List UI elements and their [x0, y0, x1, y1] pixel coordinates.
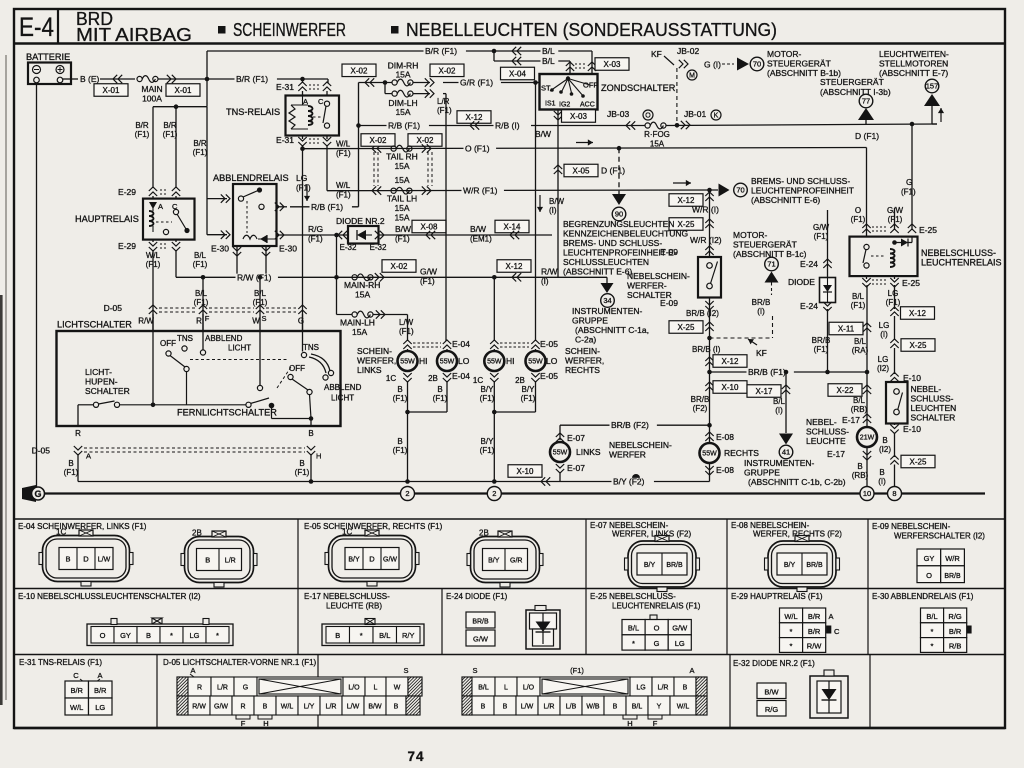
svg-text:(F1): (F1) [901, 188, 916, 197]
svg-text:E-09 NEBELSCHEIN-: E-09 NEBELSCHEIN- [872, 522, 951, 531]
svg-text:GY: GY [924, 554, 935, 563]
svg-text:X-02: X-02 [417, 136, 434, 145]
svg-text:L/W: L/W [347, 703, 360, 710]
svg-text:R/B (I): R/B (I) [495, 121, 520, 131]
svg-text:LEUCHTE (RB): LEUCHTE (RB) [326, 602, 382, 611]
svg-text:DIODE NR.2: DIODE NR.2 [336, 216, 385, 226]
svg-text:1C: 1C [342, 528, 352, 537]
svg-text:B/Y: B/Y [784, 562, 796, 569]
svg-text:B/Y: B/Y [481, 385, 495, 394]
svg-text:O: O [926, 571, 932, 580]
svg-text:(I2): (I2) [877, 364, 889, 373]
svg-text:LO: LO [458, 356, 470, 366]
svg-text:B/L: B/L [542, 56, 555, 66]
svg-text:G: G [298, 317, 304, 326]
svg-text:(F1): (F1) [480, 394, 495, 403]
svg-text:LEUCHTENPROFEINHEIT E-: LEUCHTENPROFEINHEIT E- [563, 248, 677, 258]
svg-text:E-08: E-08 [716, 465, 734, 475]
svg-text:X-08: X-08 [421, 223, 438, 232]
svg-text:B: B [857, 462, 862, 471]
svg-text:L/R: L/R [437, 97, 450, 106]
svg-text:E-32: E-32 [370, 243, 387, 252]
svg-text:WERFER: WERFER [609, 450, 646, 460]
svg-text:G/W: G/W [420, 267, 437, 277]
svg-text:8: 8 [892, 489, 896, 498]
svg-text:R/W: R/W [192, 703, 206, 710]
svg-text:ABBLEND: ABBLEND [324, 383, 362, 392]
svg-text:G: G [34, 489, 41, 499]
svg-text:15A: 15A [650, 140, 665, 149]
svg-text:E-10: E-10 [903, 424, 921, 434]
svg-text:LICHT-: LICHT- [85, 367, 112, 377]
svg-text:(RB): (RB) [851, 405, 868, 414]
svg-text:BR/B (I2): BR/B (I2) [686, 309, 719, 318]
svg-text:SCHEIN-: SCHEIN- [357, 346, 392, 356]
svg-text:F: F [241, 719, 246, 728]
svg-text:E-29: E-29 [118, 187, 136, 197]
svg-text:(F1): (F1) [814, 345, 829, 354]
svg-text:X-11: X-11 [838, 325, 855, 334]
svg-text:W/R (I2): W/R (I2) [690, 235, 722, 245]
svg-text:(I2): (I2) [879, 445, 891, 454]
svg-text:TNS: TNS [177, 334, 193, 343]
svg-text:FERNLICHTSCHALTER: FERNLICHTSCHALTER [177, 408, 277, 418]
svg-text:(F1): (F1) [393, 394, 408, 403]
svg-text:G: G [243, 684, 248, 691]
svg-text:B/R (F1): B/R (F1) [236, 74, 268, 84]
svg-text:(RB): (RB) [852, 471, 869, 480]
svg-text:E-24 DIODE (F1): E-24 DIODE (F1) [446, 592, 508, 601]
svg-text:B: B [299, 459, 304, 468]
svg-text:G/W: G/W [672, 624, 688, 633]
svg-text:LINKS: LINKS [576, 447, 601, 457]
svg-text:W/R: W/R [945, 554, 960, 563]
svg-text:77: 77 [862, 97, 870, 106]
svg-text:IS1: IS1 [545, 101, 556, 108]
svg-text:BR/B: BR/B [944, 573, 961, 580]
svg-text:LEUCHTENRELAIS (F1): LEUCHTENRELAIS (F1) [612, 602, 701, 611]
svg-text:LEUCHTE: LEUCHTE [806, 436, 846, 446]
svg-text:(F1): (F1) [886, 298, 901, 307]
svg-text:2B: 2B [192, 529, 202, 538]
svg-text:21W: 21W [860, 435, 875, 442]
svg-text:TNS: TNS [303, 343, 319, 352]
svg-text:SCHEINWERFER: SCHEINWERFER [233, 20, 346, 40]
svg-text:HAUPTRELAIS: HAUPTRELAIS [75, 214, 139, 224]
svg-text:D-05: D-05 [32, 446, 51, 456]
svg-text:W/L: W/L [146, 251, 161, 260]
svg-text:2B: 2B [479, 529, 489, 538]
svg-text:GY: GY [120, 631, 131, 640]
svg-text:NEBELSCHEIN-: NEBELSCHEIN- [627, 271, 690, 281]
svg-text:55W: 55W [528, 359, 543, 366]
svg-text:B/R: B/R [163, 121, 177, 130]
svg-text:BREMS- UND SCHLUSS-: BREMS- UND SCHLUSS- [751, 176, 850, 186]
svg-text:B/L: B/L [195, 289, 208, 298]
svg-text:90: 90 [615, 210, 623, 219]
svg-text:(F1): (F1) [194, 298, 209, 307]
svg-text:(F1): (F1) [480, 446, 495, 455]
svg-text:B/R: B/R [949, 627, 962, 636]
svg-text:C: C [318, 97, 324, 106]
svg-text:OFF: OFF [583, 81, 598, 90]
svg-text:IG2: IG2 [559, 102, 570, 109]
svg-text:(RA): (RA) [852, 346, 869, 355]
svg-text:R: R [196, 317, 202, 326]
svg-text:B/L: B/L [379, 631, 390, 640]
svg-text:R: R [75, 429, 81, 438]
svg-text:B: B [503, 703, 508, 710]
svg-text:X-25: X-25 [910, 458, 927, 467]
svg-text:S: S [403, 666, 408, 675]
svg-text:R·FOG: R·FOG [644, 130, 670, 139]
svg-text:C: C [834, 627, 840, 636]
svg-text:WERFER,: WERFER, [357, 356, 396, 366]
svg-text:(ABSCHNITT C-1b, C-2b): (ABSCHNITT C-1b, C-2b) [748, 477, 846, 487]
svg-text:LG: LG [189, 631, 199, 640]
svg-text:MOTOR-: MOTOR- [733, 230, 767, 240]
svg-text:X-12: X-12 [466, 113, 483, 122]
svg-text:E-32 DIODE NR.2 (F1): E-32 DIODE NR.2 (F1) [733, 659, 815, 668]
svg-text:D-05 LICHTSCHALTER-VORNE NR.1: D-05 LICHTSCHALTER-VORNE NR.1 (F1) [163, 658, 317, 667]
svg-text:B: B [205, 555, 210, 564]
svg-text:E-17 NEBELSCHLUSS-: E-17 NEBELSCHLUSS- [304, 592, 390, 601]
svg-text:K: K [714, 113, 719, 120]
svg-text:*: * [931, 642, 934, 651]
svg-text:MOTOR-: MOTOR- [767, 49, 801, 59]
svg-text:(F1): (F1) [64, 468, 79, 477]
svg-text:2B: 2B [428, 374, 438, 383]
svg-text:NEBELSCHEIN-: NEBELSCHEIN- [609, 440, 672, 450]
svg-text:X-01: X-01 [175, 86, 192, 95]
svg-text:BREMS- UND SCHLUSS-: BREMS- UND SCHLUSS- [563, 238, 662, 248]
svg-text:R/W: R/W [541, 267, 558, 277]
svg-text:W/L: W/L [677, 703, 690, 710]
svg-text:ZONDSCHALTER: ZONDSCHALTER [601, 83, 676, 93]
svg-text:LEUCHTENPROFEINHEIT: LEUCHTENPROFEINHEIT [751, 186, 854, 196]
svg-text:X-02: X-02 [370, 136, 387, 145]
svg-text:HUPEN-: HUPEN- [85, 377, 118, 387]
svg-text:F: F [653, 719, 658, 728]
svg-text:E-04: E-04 [452, 339, 470, 349]
svg-text:70: 70 [753, 60, 761, 69]
svg-text:W/R (I): W/R (I) [692, 205, 719, 215]
svg-text:STEUERGERÄT: STEUERGERÄT [733, 240, 797, 250]
svg-text:BR/B: BR/B [812, 336, 831, 345]
svg-text:G (I): G (I) [704, 60, 721, 70]
svg-text:X-04: X-04 [509, 70, 526, 79]
svg-text:L/R: L/R [658, 684, 669, 691]
svg-text:(F1): (F1) [395, 235, 410, 244]
svg-text:(F1): (F1) [308, 235, 323, 244]
svg-text:A: A [829, 612, 834, 621]
svg-text:B/L: B/L [926, 612, 937, 621]
svg-text:B/Y: B/Y [522, 385, 536, 394]
svg-text:B: B [879, 468, 884, 477]
svg-text:MAIN-RH: MAIN-RH [344, 280, 380, 290]
svg-text:ST: ST [541, 84, 551, 93]
svg-text:BR/B: BR/B [806, 562, 823, 569]
svg-text:*: * [790, 642, 793, 651]
svg-text:BR/B (F2): BR/B (F2) [611, 420, 649, 430]
svg-text:D: D [83, 554, 89, 563]
svg-text:X-02: X-02 [391, 262, 408, 271]
svg-text:(ABSCHNITT E-6): (ABSCHNITT E-6) [751, 195, 820, 205]
svg-text:LEUCHTEN: LEUCHTEN [911, 403, 957, 413]
svg-text:157: 157 [926, 82, 939, 91]
svg-text:GRUPPE: GRUPPE [572, 316, 608, 326]
svg-text:W/L: W/L [70, 703, 83, 712]
svg-text:G/W: G/W [887, 206, 903, 215]
svg-text:R/B (F1): R/B (F1) [388, 121, 420, 131]
svg-text:(F1): (F1) [163, 130, 178, 139]
svg-text:(F1): (F1) [851, 301, 866, 310]
svg-text:B/L: B/L [853, 396, 866, 405]
svg-text:(ABSCHNITT C-1a,: (ABSCHNITT C-1a, [575, 325, 649, 335]
svg-text:ACC: ACC [580, 102, 595, 109]
svg-text:15A: 15A [394, 203, 409, 213]
svg-text:X-05: X-05 [573, 167, 590, 176]
svg-text:(F1): (F1) [393, 446, 408, 455]
svg-text:B/R: B/R [94, 686, 107, 695]
svg-text:B/W: B/W [395, 224, 411, 234]
svg-text:55W: 55W [487, 359, 502, 366]
svg-text:R/G: R/G [765, 705, 779, 714]
svg-text:1C: 1C [386, 374, 396, 383]
svg-text:E-25: E-25 [902, 278, 920, 288]
svg-text:(F1): (F1) [336, 191, 351, 200]
svg-text:R/W: R/W [807, 642, 823, 651]
svg-text:55W: 55W [440, 359, 455, 366]
svg-text:B: B [397, 437, 402, 446]
svg-text:71: 71 [767, 260, 775, 269]
svg-text:B/R (F1): B/R (F1) [425, 46, 457, 56]
svg-text:A: A [689, 666, 694, 675]
svg-text:ABBLEND: ABBLEND [205, 334, 243, 343]
svg-text:LG: LG [675, 639, 685, 648]
svg-text:X-17: X-17 [756, 387, 773, 396]
svg-text:*: * [790, 627, 793, 636]
svg-text:55W: 55W [400, 359, 415, 366]
svg-text:D-05: D-05 [104, 303, 123, 313]
svg-text:G/W: G/W [473, 635, 489, 644]
svg-text:INSTRUMENTEN-: INSTRUMENTEN- [744, 458, 815, 468]
svg-text:LICHT: LICHT [228, 344, 251, 353]
svg-text:R/Y: R/Y [402, 631, 415, 640]
svg-text:X-02: X-02 [351, 66, 368, 75]
svg-text:B: B [481, 703, 486, 710]
svg-text:R/W (F1): R/W (F1) [237, 272, 272, 282]
svg-text:G/R: G/R [510, 557, 522, 564]
svg-text:G/W: G/W [214, 703, 228, 710]
svg-text:E-10 NEBELSCHLUSSLEUCHTENSCHAL: E-10 NEBELSCHLUSSLEUCHTENSCHALTER (I2) [18, 592, 201, 601]
svg-text:X-12: X-12 [506, 262, 523, 271]
svg-text:100A: 100A [142, 94, 162, 104]
svg-text:B/W: B/W [764, 688, 779, 697]
svg-text:D (F1): D (F1) [601, 166, 625, 176]
svg-text:INSTRUMENTEN-: INSTRUMENTEN- [572, 306, 643, 316]
svg-text:L/Y: L/Y [304, 703, 315, 710]
svg-text:SCHEIN-: SCHEIN- [565, 346, 600, 356]
svg-text:TAIL RH: TAIL RH [386, 152, 418, 162]
svg-text:MAIN-LH: MAIN-LH [340, 318, 375, 328]
svg-text:TAIL LH: TAIL LH [387, 194, 417, 204]
svg-text:LG: LG [636, 684, 645, 691]
svg-text:L/R: L/R [326, 703, 337, 710]
svg-text:O (F1): O (F1) [465, 144, 490, 154]
svg-text:*: * [931, 627, 934, 636]
svg-text:M: M [689, 73, 695, 80]
svg-text:E-24: E-24 [800, 301, 818, 311]
svg-text:L/W: L/W [98, 556, 111, 563]
svg-text:L/W: L/W [521, 703, 534, 710]
svg-text:E-04: E-04 [452, 371, 470, 381]
svg-text:OFF: OFF [289, 364, 305, 373]
svg-text:O: O [654, 624, 660, 633]
svg-text:W/L: W/L [281, 703, 294, 710]
svg-text:R/B (F1): R/B (F1) [311, 202, 343, 212]
svg-text:BR/B: BR/B [752, 298, 771, 307]
svg-text:(F1): (F1) [814, 232, 829, 241]
svg-text:X-03: X-03 [604, 60, 621, 69]
svg-text:C: C [73, 671, 79, 680]
svg-text:E-05: E-05 [540, 339, 558, 349]
svg-text:E-09: E-09 [660, 298, 678, 308]
svg-text:H: H [627, 719, 632, 728]
svg-text:X-01: X-01 [103, 86, 120, 95]
svg-text:B/L: B/L [478, 684, 489, 691]
svg-text:WERFERSCHALTER (I2): WERFERSCHALTER (I2) [894, 532, 985, 541]
svg-text:E-31 TNS-RELAIS (F1): E-31 TNS-RELAIS (F1) [19, 658, 102, 667]
svg-text:L/W: L/W [399, 318, 414, 327]
svg-text:B: B [437, 385, 442, 394]
svg-text:RECHTS: RECHTS [565, 365, 600, 375]
svg-text:NEBEL-: NEBEL- [806, 417, 837, 427]
svg-text:BR/B: BR/B [666, 562, 683, 569]
svg-text:L/O: L/O [348, 684, 360, 691]
svg-text:(I): (I) [549, 206, 557, 215]
svg-text:E-32: E-32 [340, 243, 357, 252]
svg-text:W/L: W/L [784, 612, 797, 621]
svg-text:34: 34 [603, 296, 611, 305]
svg-text:STELLMOTOREN: STELLMOTOREN [879, 59, 948, 69]
svg-text:E-17: E-17 [842, 415, 860, 425]
svg-text:B/L: B/L [542, 46, 555, 56]
svg-text:E-17: E-17 [827, 449, 845, 459]
svg-text:2B: 2B [515, 376, 525, 385]
svg-text:BR/B: BR/B [472, 619, 489, 626]
svg-text:L: L [504, 684, 508, 691]
svg-text:BR/B (I): BR/B (I) [692, 345, 721, 354]
svg-text:B/Y (F2): B/Y (F2) [613, 477, 645, 487]
svg-text:G: G [654, 639, 660, 648]
svg-text:B: B [263, 703, 268, 710]
svg-text:15A: 15A [352, 327, 367, 337]
svg-text:L: L [374, 684, 378, 691]
svg-text:B/W: B/W [549, 197, 565, 206]
svg-text:(F1): (F1) [193, 260, 208, 269]
svg-text:LINKS: LINKS [357, 365, 382, 375]
svg-text:E-08: E-08 [716, 432, 734, 442]
svg-text:1C: 1C [56, 528, 66, 537]
svg-text:R/G: R/G [948, 612, 962, 621]
svg-text:B: B [65, 554, 70, 563]
svg-text:KENNZEICHENBELEUCHTUNG: KENNZEICHENBELEUCHTUNG [563, 229, 688, 239]
svg-text:E-24: E-24 [800, 259, 818, 269]
svg-text:G/W: G/W [813, 223, 829, 232]
svg-text:JB-02: JB-02 [677, 46, 699, 56]
svg-text:(F1): (F1) [146, 260, 161, 269]
svg-text:(F1): (F1) [521, 394, 536, 403]
svg-text:X-02: X-02 [439, 66, 456, 75]
svg-text:E-30 ABBLENDRELAIS (F1): E-30 ABBLENDRELAIS (F1) [872, 592, 974, 601]
svg-text:B: B [335, 631, 340, 640]
svg-text:C-2a): C-2a) [575, 335, 596, 345]
svg-text:E-4: E-4 [19, 12, 54, 42]
svg-text:E-29: E-29 [118, 241, 136, 251]
svg-text:(ABSCHNITT I-3b): (ABSCHNITT I-3b) [820, 87, 891, 97]
svg-text:SCHALTER: SCHALTER [911, 413, 956, 423]
svg-text:RECHTS: RECHTS [724, 448, 759, 458]
svg-text:W: W [394, 684, 401, 691]
svg-text:(I): (I) [541, 277, 549, 286]
svg-text:G/W: G/W [383, 556, 397, 563]
svg-text:LEUCHTWEITEN-: LEUCHTWEITEN- [879, 49, 949, 59]
svg-text:SCHLUSS-: SCHLUSS- [806, 427, 849, 437]
svg-text:74: 74 [407, 749, 424, 764]
svg-text:WERFER, LINKS (F2): WERFER, LINKS (F2) [612, 530, 691, 539]
svg-text:B/W: B/W [470, 224, 486, 234]
svg-text:L/R: L/R [217, 684, 228, 691]
svg-text:B/R: B/R [808, 627, 821, 636]
svg-text:X-25: X-25 [678, 323, 695, 332]
svg-text:B/Y: B/Y [348, 556, 360, 563]
svg-text:E-07: E-07 [567, 463, 585, 473]
svg-text:(F1): (F1) [336, 149, 351, 158]
svg-text:LICHTSCHALTER: LICHTSCHALTER [57, 320, 132, 330]
svg-text:B/Y: B/Y [644, 562, 656, 569]
svg-text:R/W: R/W [138, 317, 154, 326]
svg-text:E-25: E-25 [919, 225, 937, 235]
svg-text:A: A [158, 202, 163, 211]
svg-text:MIT AIRBAG: MIT AIRBAG [76, 25, 192, 45]
svg-text:JB-03: JB-03 [607, 109, 629, 119]
svg-text:B: B [394, 703, 399, 710]
svg-text:X-22: X-22 [837, 386, 854, 395]
svg-text:LG: LG [878, 355, 889, 364]
svg-text:(F1): (F1) [851, 215, 866, 224]
svg-text:A: A [190, 666, 195, 675]
svg-text:(F1): (F1) [420, 277, 435, 286]
svg-text:ABBLENDRELAIS: ABBLENDRELAIS [213, 173, 289, 183]
svg-text:H: H [316, 452, 321, 461]
svg-text:B/W: B/W [535, 129, 551, 139]
svg-text:(I): (I) [878, 477, 886, 486]
svg-text:A: A [86, 452, 91, 461]
svg-text:JB-01: JB-01 [684, 109, 706, 119]
svg-text:B/L: B/L [854, 337, 867, 346]
svg-text:2: 2 [405, 489, 409, 498]
svg-text:B/Y: B/Y [481, 437, 495, 446]
svg-text:BEGRENZUNGSLEUCHTEN: BEGRENZUNGSLEUCHTEN [563, 219, 674, 229]
svg-text:70: 70 [736, 186, 744, 195]
svg-text:MAIN: MAIN [141, 84, 162, 94]
svg-text:G/R (F1): G/R (F1) [460, 78, 493, 88]
svg-text:NEBELSCHLUSS-: NEBELSCHLUSS- [921, 248, 996, 258]
svg-text:TNS-RELAIS: TNS-RELAIS [226, 107, 280, 117]
svg-text:*: * [360, 631, 363, 640]
svg-text:DIODE: DIODE [788, 277, 815, 287]
